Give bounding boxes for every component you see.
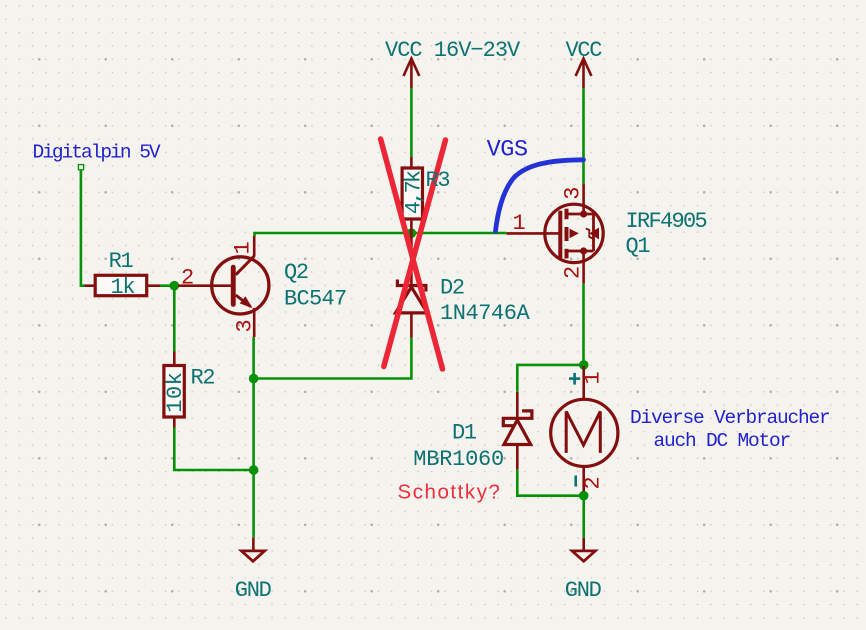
svg-text:10k: 10k bbox=[163, 372, 188, 413]
svg-text:GND: GND bbox=[235, 578, 272, 603]
svg-text:IRF4905: IRF4905 bbox=[626, 209, 707, 234]
svg-text:MBR1060: MBR1060 bbox=[413, 447, 504, 472]
svg-text:2: 2 bbox=[561, 267, 586, 279]
svg-text:GND: GND bbox=[565, 578, 602, 603]
svg-text:1k: 1k bbox=[111, 275, 136, 300]
svg-text:1: 1 bbox=[581, 372, 606, 385]
svg-text:VGS: VGS bbox=[487, 137, 528, 164]
svg-text:4,7k: 4,7k bbox=[402, 170, 427, 214]
svg-text:1N4746A: 1N4746A bbox=[440, 301, 531, 326]
svg-text:3: 3 bbox=[233, 321, 258, 333]
svg-text:auch DC Motor: auch DC Motor bbox=[654, 430, 791, 452]
svg-text:R2: R2 bbox=[191, 366, 215, 391]
svg-text:R3: R3 bbox=[426, 168, 450, 193]
svg-text:D2: D2 bbox=[440, 276, 464, 301]
svg-text:Diverse Verbraucher: Diverse Verbraucher bbox=[630, 407, 830, 429]
svg-text:Q2: Q2 bbox=[284, 260, 308, 285]
svg-text:BC547: BC547 bbox=[284, 287, 347, 312]
svg-text:3: 3 bbox=[561, 188, 586, 200]
svg-text:Digitalpin 5V: Digitalpin 5V bbox=[33, 142, 161, 164]
svg-text:1: 1 bbox=[231, 242, 256, 255]
svg-text:2: 2 bbox=[581, 478, 606, 490]
svg-text:R1: R1 bbox=[109, 249, 134, 274]
svg-text:VCC 16V−23V: VCC 16V−23V bbox=[385, 38, 521, 63]
svg-text:2: 2 bbox=[181, 266, 193, 291]
svg-text:Schottky?: Schottky? bbox=[398, 481, 502, 504]
svg-text:1: 1 bbox=[513, 211, 526, 236]
svg-text:Q1: Q1 bbox=[626, 234, 651, 259]
svg-text:VCC: VCC bbox=[566, 38, 603, 63]
svg-text:D1: D1 bbox=[452, 421, 477, 446]
